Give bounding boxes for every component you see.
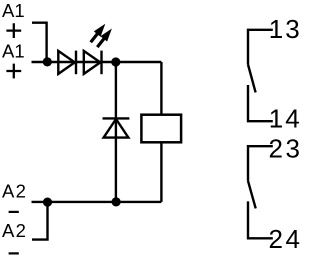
node junction A1 terminals <box>43 57 52 66</box>
svg-text:23: 23 <box>269 133 301 163</box>
svg-text:14: 14 <box>269 103 300 133</box>
svg-text:A1: A1 <box>2 40 25 61</box>
LED emission arrow 1 <box>91 24 106 43</box>
relay coil K1 <box>141 115 181 143</box>
minus sign terminal 1 <box>9 211 19 213</box>
node junction A2 terminals <box>43 198 52 207</box>
wire A2 main rail <box>32 201 162 203</box>
contact 23-24 blade <box>248 181 256 209</box>
plus sign terminal 1 <box>6 23 21 38</box>
wire coil to A2 rail <box>160 142 162 202</box>
wire A1 main rail <box>32 61 162 63</box>
svg-text:13: 13 <box>269 14 300 44</box>
svg-text:A1: A1 <box>2 0 25 21</box>
svg-text:A2: A2 <box>2 220 27 241</box>
wire A1 terminal-1 bracket <box>32 23 47 62</box>
minus sign terminal 2 <box>9 252 19 254</box>
contact 23-24 top rail <box>248 146 273 181</box>
node junction freewheel/A2 <box>112 197 121 206</box>
node junction after LED <box>111 57 120 66</box>
contact 13-14 blade <box>248 65 256 93</box>
wire A2 terminal-2 bracket <box>32 202 48 240</box>
freewheel diode V3 <box>103 118 130 137</box>
contact 13-14 top rail <box>248 30 273 65</box>
plus sign terminal 2 <box>6 64 21 79</box>
LED emission arrow 2 <box>97 29 112 48</box>
wire freewheel branch <box>115 62 117 202</box>
contact 23-24 bottom rail <box>248 201 273 238</box>
wire coil branch down <box>160 62 162 115</box>
svg-text:A2: A2 <box>2 180 27 201</box>
contact 13-14 bottom rail <box>248 85 273 121</box>
svg-text:24: 24 <box>269 224 301 254</box>
diode V1 <box>58 51 76 75</box>
LED V2 <box>84 51 102 75</box>
